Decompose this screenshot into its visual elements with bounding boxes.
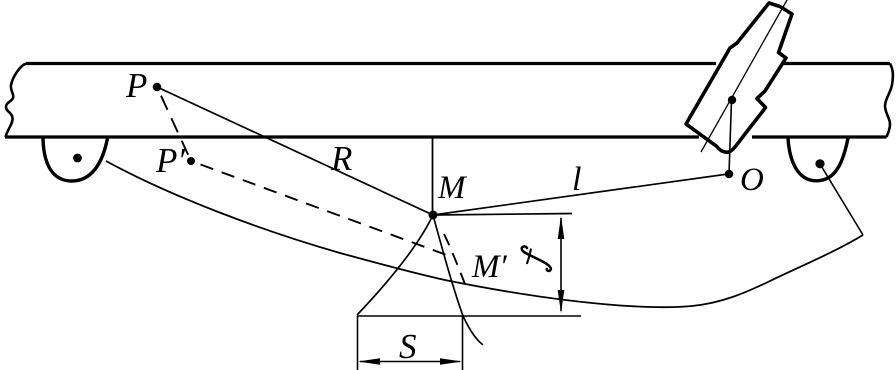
beam top edge line — [26, 62, 890, 65]
point M dot — [429, 211, 438, 220]
dashed line P to P' — [161, 96, 191, 161]
device axis thin line — [701, 0, 787, 152]
svg-text:O: O — [740, 162, 764, 198]
dashed line P' to M' — [201, 165, 453, 258]
svg-text:P: P — [125, 66, 147, 105]
chord box right vertical — [462, 316, 464, 370]
svg-text:M: M — [437, 170, 467, 206]
deflection curve of beam (from left support through M' to right end) — [106, 161, 863, 307]
device pivot dot — [728, 96, 736, 104]
point P dot — [153, 83, 162, 92]
link line l from M to O — [433, 174, 728, 215]
vertical line from beam to M — [432, 136, 434, 214]
horizontal reference line from M (top of f) — [433, 214, 572, 216]
chord box: horizontal baseline at deflected level — [357, 315, 581, 317]
short dashed arc from M toward deflected curve — [444, 234, 467, 289]
left support (roller U) — [43, 138, 108, 181]
dial gauge device (tilted), white filled occluding beam — [686, 0, 792, 174]
svg-text:l: l — [572, 161, 581, 198]
right support pivot dot — [815, 159, 824, 168]
right support (roller U) — [788, 138, 848, 181]
plumb line from device pivot to O — [729, 100, 732, 174]
chord box left vertical — [357, 316, 359, 370]
left support pivot dot — [73, 154, 82, 163]
label f (rotated italic f drawn as path) — [522, 246, 551, 271]
svg-text:M′: M′ — [471, 249, 507, 285]
arc about O through M (solid, down-right through chord box) — [433, 215, 483, 345]
lever line R from P to M — [157, 87, 433, 215]
arc about P swept by M (solid, down-left to chord box corner) — [357, 215, 433, 315]
svg-text:P′: P′ — [155, 141, 186, 180]
tie line from right support dot to curve end — [820, 164, 863, 235]
beam bottom edge line — [5, 135, 887, 138]
point P' dot — [187, 157, 195, 165]
beam left break squiggle — [6, 64, 27, 138]
beam right break squiggle — [885, 64, 893, 138]
point O dot — [725, 170, 733, 178]
svg-text:R: R — [330, 139, 352, 178]
dimension S double arrow — [358, 358, 462, 365]
dimension f double arrow — [558, 216, 565, 313]
svg-text:S: S — [399, 327, 417, 366]
